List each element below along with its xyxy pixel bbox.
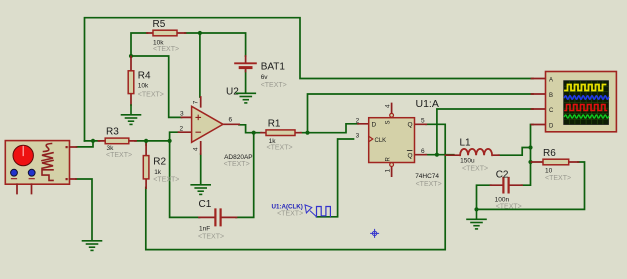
ground below op-amp xyxy=(191,185,210,195)
wire R5 left to R4 node to op-amp + input xyxy=(131,33,182,117)
svg-text:1nF: 1nF xyxy=(199,226,210,233)
resistor R6 xyxy=(532,159,579,165)
resistor R2 xyxy=(143,144,149,188)
wire CLK to probe xyxy=(317,139,354,217)
op-amp U1 AD820AP xyxy=(179,97,240,154)
wire R3 line xyxy=(85,140,170,142)
svg-text:<TEXT>: <TEXT> xyxy=(153,177,179,184)
wire R5 right to battery xyxy=(185,33,246,56)
wire op-amp V- to ground stub xyxy=(200,154,202,185)
svg-text:D: D xyxy=(372,122,377,129)
svg-text:<TEXT>: <TEXT> xyxy=(496,204,522,211)
svg-text:R3: R3 xyxy=(106,126,119,137)
scope trace channel D green xyxy=(565,115,609,118)
svg-text:3: 3 xyxy=(356,133,360,140)
svg-text:<TEXT>: <TEXT> xyxy=(261,82,287,89)
svg-text:1k: 1k xyxy=(154,169,162,176)
svg-text:<TEXT>: <TEXT> xyxy=(416,181,442,188)
wire scope B vertical from R1 node xyxy=(308,94,534,133)
svg-text:R1: R1 xyxy=(268,119,281,130)
wire L1 right to node xyxy=(499,148,531,156)
svg-text:<TEXT>: <TEXT> xyxy=(153,46,179,53)
svg-text:6: 6 xyxy=(229,117,233,124)
ground below R4 xyxy=(122,105,141,124)
svg-text:<TEXT>: <TEXT> xyxy=(198,234,224,241)
resistor R1 xyxy=(261,130,301,136)
svg-text:<TEXT>: <TEXT> xyxy=(106,152,132,159)
battery BAT1 xyxy=(235,56,256,72)
svg-text:R: R xyxy=(386,157,392,162)
svg-text:S: S xyxy=(386,120,392,124)
wire generator upper terminal jog xyxy=(77,141,94,147)
svg-text:AD820AP: AD820AP xyxy=(224,154,253,161)
svg-text:<TEXT>: <TEXT> xyxy=(224,161,250,168)
scope trace channel B blue xyxy=(565,96,609,99)
wire op-amp V+ vertical xyxy=(199,33,201,97)
wire C2 left to ground node xyxy=(477,185,491,209)
resistor R3 xyxy=(99,138,137,144)
svg-text:2: 2 xyxy=(180,126,184,133)
wire generator lower terminal to ground xyxy=(76,179,92,241)
svg-text:4: 4 xyxy=(193,147,200,151)
svg-text:150u: 150u xyxy=(460,158,475,165)
svg-text:Q: Q xyxy=(408,122,413,129)
svg-text:C2: C2 xyxy=(496,169,509,180)
ground below battery xyxy=(236,93,255,103)
svg-text:D: D xyxy=(549,124,554,130)
wire R2 top stub xyxy=(145,141,147,145)
svg-text:7: 7 xyxy=(193,100,200,104)
svg-text:B: B xyxy=(549,93,553,99)
flip-flop U1:A 74HC74 xyxy=(358,104,426,177)
signal generator xyxy=(5,141,76,194)
svg-text:10k: 10k xyxy=(138,83,149,90)
svg-text:R4: R4 xyxy=(138,71,151,82)
resistor R5 xyxy=(147,30,186,36)
capacitor C2 xyxy=(491,178,523,192)
svg-text:R2: R2 xyxy=(153,156,166,167)
wire C1 right vertical xyxy=(236,133,254,218)
wire op-amp output to R1 xyxy=(239,125,262,133)
wire scope D vertical node xyxy=(522,125,534,186)
node junction dots xyxy=(91,31,533,212)
wire op-amp inverting input jog xyxy=(170,132,179,141)
resistor R4 xyxy=(128,57,134,106)
wire bottom feedback loop R2 to Q xyxy=(146,124,445,249)
svg-text:Q: Q xyxy=(408,152,413,159)
svg-text:<TEXT>: <TEXT> xyxy=(138,92,164,99)
svg-text:A: A xyxy=(549,78,553,84)
svg-text:2: 2 xyxy=(356,117,360,124)
svg-text:C: C xyxy=(549,108,554,114)
inductor L1 xyxy=(446,149,500,155)
svg-text:4: 4 xyxy=(385,104,392,108)
svg-text:5: 5 xyxy=(421,117,425,124)
svg-text:6v: 6v xyxy=(261,74,269,81)
svg-text:<TEXT>: <TEXT> xyxy=(267,144,293,151)
svg-text:R6: R6 xyxy=(543,148,556,159)
svg-text:<TEXT>: <TEXT> xyxy=(277,210,303,217)
scope trace channel C red xyxy=(565,105,607,111)
svg-text:3: 3 xyxy=(180,111,184,118)
wire Q-bar to L1 and scope C vertical xyxy=(426,109,533,155)
svg-text:74HC74: 74HC74 xyxy=(415,173,439,180)
svg-text:L1: L1 xyxy=(460,137,472,148)
origin marker xyxy=(371,229,379,237)
svg-text:U1:A: U1:A xyxy=(416,98,439,110)
wire R6 right loop xyxy=(477,162,585,209)
svg-text:R5: R5 xyxy=(153,19,166,30)
scope trace channel A yellow xyxy=(565,85,606,91)
wire top loop from node A down left side xyxy=(85,18,534,141)
svg-text:C1: C1 xyxy=(199,199,212,210)
capacitor C1 xyxy=(199,210,237,226)
svg-text:U2: U2 xyxy=(226,86,239,97)
svg-text:BAT1: BAT1 xyxy=(261,62,286,73)
svg-text:<TEXT>: <TEXT> xyxy=(462,165,488,172)
svg-text:3k: 3k xyxy=(107,145,115,152)
ground below C2 node xyxy=(467,209,486,229)
svg-text:CLK: CLK xyxy=(375,138,387,144)
wire battery to ground stub xyxy=(245,71,247,94)
svg-text:10: 10 xyxy=(545,167,553,174)
svg-text:1: 1 xyxy=(385,169,392,173)
wire R1 right node to D input xyxy=(301,124,359,133)
wire C1 left vertical xyxy=(170,141,200,218)
svg-text:100n: 100n xyxy=(495,196,510,203)
ground below generator xyxy=(83,241,102,251)
svg-text:<TEXT>: <TEXT> xyxy=(545,175,571,182)
probe U1:A(CLK) xyxy=(305,205,330,217)
svg-text:6: 6 xyxy=(421,148,425,155)
oscilloscope xyxy=(532,72,617,132)
